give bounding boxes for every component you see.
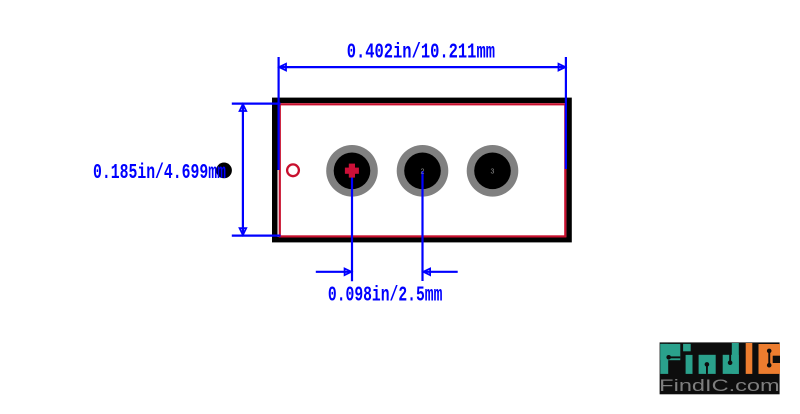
svg-text:2: 2 [421,168,425,175]
svg-text:0.402in/10.211mm: 0.402in/10.211mm [347,41,495,65]
svg-text:0.185in/4.699mm: 0.185in/4.699mm [93,161,226,185]
svg-text:FindIC.com: FindIC.com [659,376,780,395]
svg-text:3: 3 [491,168,495,175]
svg-text:0.098in/2.5mm: 0.098in/2.5mm [328,284,443,308]
